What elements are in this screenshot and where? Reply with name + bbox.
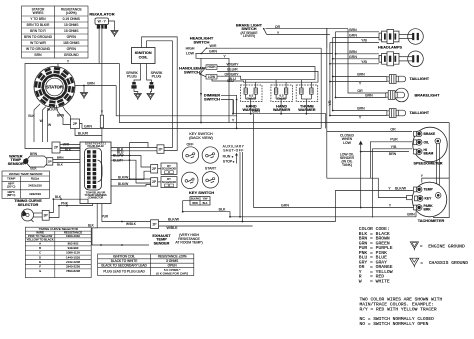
- svg-text:KEY: KEY: [425, 197, 433, 201]
- svg-text:IGNITION COIL: IGNITION COIL: [113, 255, 136, 259]
- wire W/GRY: [217, 67, 315, 80]
- svg-text:SWITCH: SWITCH: [194, 39, 210, 44]
- svg-text:STOP: STOP: [223, 160, 233, 164]
- svg-text:(88°C): (88°C): [7, 193, 15, 197]
- svg-text:TEMP: TEMP: [424, 188, 434, 192]
- svg-text:PUR: PUR: [390, 138, 398, 142]
- svg-text:COIL: COIL: [139, 55, 149, 59]
- svg-text:CONNECTOR: CONNECTOR: [88, 197, 104, 200]
- wire sender ground branch: [92, 228, 149, 245]
- svg-text:SWITCH: SWITCH: [184, 69, 200, 74]
- wire OR/GRY: [217, 76, 241, 80]
- svg-text:BRN TO GROUND: BRN TO GROUND: [24, 35, 53, 39]
- svg-text:BRN: BRN: [57, 156, 63, 160]
- svg-text:Y/B: Y/B: [361, 39, 367, 43]
- headlamp 2: [379, 51, 423, 67]
- svg-text:Y/B: Y/B: [391, 145, 397, 149]
- wire Y brake: [267, 34, 330, 36]
- wire stator BLK: [34, 104, 40, 142]
- svg-text:15 OHMS: 15 OHMS: [64, 23, 79, 27]
- tach light: [435, 193, 441, 199]
- wire dimmer 2: [221, 100, 233, 114]
- svg-text:0.19 OHMS: 0.19 OHMS: [63, 17, 81, 21]
- svg-text:B: B: [39, 246, 41, 250]
- svg-text:BRN: BRN: [357, 107, 365, 111]
- svg-text:BLK/W: BLK/W: [395, 187, 407, 191]
- wire brakelight BRN: [336, 97, 386, 99]
- svg-text:OR: OR: [357, 89, 363, 93]
- svg-text:3 OHMS: 3 OHMS: [166, 259, 178, 263]
- svg-text:W/GRY: W/GRY: [227, 63, 240, 67]
- svg-text:BRN: BRN: [407, 213, 415, 217]
- svg-text:BLU/R: BLU/R: [113, 158, 123, 162]
- svg-text:BLK: BLK: [57, 163, 63, 167]
- wire headlamp1 Y/B: [330, 42, 379, 44]
- wire ignition coil feed 1: [142, 37, 178, 151]
- svg-text:WATER TEMP SENSOR: WATER TEMP SENSOR: [9, 172, 43, 176]
- svg-text:C: C: [39, 251, 41, 255]
- svg-text:= ENGINE GROUND: = ENGINE GROUND: [420, 244, 465, 250]
- svg-text:SOLENOID: SOLENOID: [162, 180, 176, 184]
- svg-text:862-902: 862-902: [68, 242, 79, 246]
- svg-text:2P: 2P: [48, 160, 52, 164]
- svg-text:W/BLK: W/BLK: [166, 226, 178, 230]
- key switch circle OFF: [182, 147, 198, 163]
- wire PUR to speedometer: [370, 142, 412, 178]
- svg-text:HIGH: HIGH: [208, 65, 217, 69]
- wire dimmer 1: [221, 95, 237, 128]
- svg-text:BLACK TO SECONDARY LEAD: BLACK TO SECONDARY LEAD: [101, 264, 147, 268]
- engine ground legend: [410, 242, 418, 249]
- svg-text:GRN: GRN: [252, 110, 260, 114]
- wire headlamp1 GRN: [333, 37, 379, 39]
- svg-text:LEVER): LEVER): [243, 34, 255, 38]
- svg-text:BLU: BLU: [227, 79, 234, 83]
- wire 2P top to connector: [111, 147, 157, 149]
- wire BLK from connector: [92, 203, 97, 227]
- wire stator left frame (BLK): [25, 64, 80, 149]
- engine ground (spark plug 1): [134, 94, 141, 99]
- hand warmer 2: [271, 85, 293, 102]
- wire headlamp1 BRN: [336, 31, 380, 33]
- wire key feed down: [200, 58, 202, 122]
- svg-text:OR: OR: [275, 25, 281, 29]
- svg-text:OFF: OFF: [186, 142, 194, 146]
- key switch circle START: [202, 172, 218, 188]
- stator resistance table: [22, 6, 89, 58]
- svg-text:W TO GROUND: W TO GROUND: [26, 47, 51, 51]
- wire Y down to tach: [327, 178, 407, 197]
- svg-text:949-993: 949-993: [68, 246, 79, 250]
- wire headlamp2 Y/B: [330, 63, 379, 65]
- wire tach mid + inline connector: [407, 195, 415, 199]
- svg-text:2432±250: 2432±250: [28, 184, 42, 188]
- fuse: [100, 115, 103, 128]
- svg-text:PLUG: PLUG: [152, 75, 162, 79]
- svg-text:GRN: GRN: [349, 34, 357, 38]
- headlight switch lever: [202, 48, 207, 54]
- svg-text:OHMS: OHMS: [277, 96, 286, 100]
- timing curve selector table: [25, 227, 91, 277]
- svg-text:TANK): TANK): [342, 163, 352, 167]
- warmer switch levers: [200, 67, 206, 74]
- wire PUR from connector: [102, 203, 151, 221]
- key switch circle 3: [182, 172, 198, 188]
- connector 2P (solenoid 2): [151, 178, 158, 187]
- wire PNK junction line: [49, 203, 92, 217]
- svg-text:BLK/W: BLK/W: [118, 175, 129, 179]
- wire OR to speedometer: [327, 131, 412, 133]
- wire Y headlight common: [196, 54, 229, 123]
- svg-text:BRK: BRK: [424, 207, 432, 211]
- brake switch lever: [264, 29, 267, 35]
- svg-text:OPEN: OPEN: [67, 35, 77, 39]
- svg-text:WARMER: WARMER: [273, 108, 291, 112]
- wire water 2P out: [53, 159, 80, 161]
- speedometer: [413, 127, 448, 162]
- engine ground (spark plug 2): [147, 94, 154, 99]
- svg-text:BLK/W: BLK/W: [191, 198, 199, 201]
- exhaust temp sender 2P: [151, 220, 159, 229]
- tach bulb PARK BRK: [414, 205, 423, 211]
- svg-text:BEAM: BEAM: [424, 152, 434, 156]
- wire regulator to ground: [109, 21, 115, 31]
- svg-text:1086-1126: 1086-1126: [66, 251, 80, 255]
- wire BLK junction line: [49, 199, 88, 212]
- svg-text:TAILLIGHT: TAILLIGHT: [410, 77, 430, 81]
- wire W/BLK long: [159, 225, 253, 227]
- svg-text:15 OHMS: 15 OHMS: [64, 29, 79, 33]
- headlamp 1: [379, 29, 423, 45]
- tachometer: [412, 182, 447, 217]
- svg-text:7890-8238: 7890-8238: [66, 269, 80, 273]
- svg-text:BRN: BRN: [87, 81, 95, 85]
- wire stator W: [43, 107, 47, 143]
- wire taillight1 Y: [330, 81, 387, 83]
- wire BRN to speedometer: [361, 151, 409, 153]
- svg-text:(±20%): (±20%): [66, 11, 77, 15]
- connector 2P (top): [157, 145, 164, 154]
- svg-text:GRN: GRN: [84, 124, 92, 128]
- wire stator W/R: [48, 107, 52, 142]
- main harness connector: [80, 142, 111, 204]
- RT solenoid 1: [161, 163, 177, 174]
- stator: [34, 67, 75, 108]
- svg-text:BRN: BRN: [389, 152, 397, 156]
- svg-text:SOLENOID: SOLENOID: [162, 167, 176, 171]
- wire BLU: [212, 79, 244, 82]
- svg-text:BLK/W: BLK/W: [168, 218, 180, 222]
- svg-text:BRN: BRN: [349, 50, 357, 54]
- svg-text:GROUND: GROUND: [64, 53, 79, 57]
- wire OR brake: [266, 28, 349, 30]
- wire aux drop 2: [241, 152, 243, 222]
- svg-text:OR/GRY: OR/GRY: [225, 72, 240, 76]
- svg-text:(20°C): (20°C): [7, 185, 15, 189]
- svg-text:NO = SWITCH NORMALLY OPEN: NO = SWITCH NORMALLY OPEN: [360, 321, 429, 327]
- hand warmer 1: [241, 85, 263, 102]
- wire GRN long to tach: [254, 114, 415, 208]
- wire stator BRN to 2P: [56, 105, 71, 125]
- speedo bulb BRAKE: [414, 131, 423, 137]
- taillight 1: [387, 75, 406, 84]
- wire OR down to brakelight: [348, 29, 386, 93]
- svg-text:BLK: BLK: [219, 208, 226, 212]
- wire BLK/W long: [159, 191, 414, 222]
- wire speedo light down: [436, 144, 438, 192]
- svg-text:SELECTOR: SELECTOR: [18, 203, 39, 207]
- wire stator BLK/R to 2P: [61, 103, 71, 122]
- svg-text:STATOR: STATOR: [46, 84, 64, 89]
- svg-text:BLU/W: BLU/W: [113, 154, 124, 158]
- svg-text:(BACK VIEW): (BACK VIEW): [189, 136, 213, 140]
- svg-text:BRN: BRN: [357, 73, 365, 77]
- svg-text:W TO W/R: W TO W/R: [30, 41, 46, 45]
- wire water sensor BRN: [28, 156, 47, 159]
- svg-text:W = WHITE: W = WHITE: [359, 279, 390, 285]
- svg-text:BRN: BRN: [192, 202, 198, 205]
- wire stator Y top: [58, 64, 119, 68]
- connector 3P (timing): [42, 210, 49, 220]
- svg-text:BLACK TO WHITE: BLACK TO WHITE: [111, 259, 138, 263]
- svg-text:BLU/R: BLU/R: [227, 68, 238, 72]
- wire BLK/W pair to solenoids: [111, 171, 151, 179]
- chassis ground legend: [410, 258, 419, 266]
- svg-text:D: D: [39, 255, 41, 259]
- svg-text:LOW: LOW: [208, 75, 215, 79]
- svg-text:SPEEDOMETER: SPEEDOMETER: [413, 162, 442, 166]
- wire fuse to connector: [101, 128, 103, 142]
- speedo bulb OIL: [414, 139, 423, 145]
- svg-text:W · Y: W · Y: [98, 20, 107, 24]
- tach bulb KEY: [415, 196, 424, 202]
- svg-text:TACHOMETER: TACHOMETER: [418, 219, 445, 223]
- svg-text:Y/W: Y/W: [203, 198, 208, 201]
- svg-text:OR: OR: [390, 127, 396, 131]
- wire bus L1: [116, 86, 236, 116]
- svg-text:HEADLAMPS: HEADLAMPS: [378, 45, 403, 49]
- svg-text:BRAKELIGHT: BRAKELIGHT: [415, 94, 441, 98]
- svg-text:PLUG LEAD TO PLUG LEAD: PLUG LEAD TO PLUG LEAD: [103, 270, 145, 274]
- wire W/R high beam: [208, 47, 321, 49]
- wire taillight2 BRN: [333, 110, 387, 112]
- ignition coil: [132, 48, 156, 64]
- svg-text:2P: 2P: [73, 122, 78, 126]
- svg-text:WIRES: WIRES: [33, 11, 45, 15]
- svg-text:SHUT-OFF: SHUT-OFF: [223, 148, 243, 152]
- svg-text:REGULATOR: REGULATOR: [89, 12, 114, 17]
- svg-text:BLK: BLK: [28, 114, 35, 118]
- svg-text:BRN TO R: BRN TO R: [30, 29, 46, 33]
- svg-text:OPEN: OPEN: [67, 47, 77, 51]
- svg-text:OIL: OIL: [424, 140, 430, 144]
- svg-text:START: START: [205, 166, 217, 170]
- wire BRN long to tach: [230, 212, 416, 217]
- wire GRN warmers bus: [234, 100, 326, 129]
- svg-text:WARMER: WARMER: [298, 108, 316, 112]
- wire key switch BLK: [183, 201, 230, 217]
- svg-text:TAILLIGHT: TAILLIGHT: [410, 111, 430, 115]
- svg-text:1440-1526: 1440-1526: [66, 255, 80, 259]
- svg-text:1932±36: 1932±36: [29, 192, 41, 196]
- svg-text:BLK/W: BLK/W: [118, 182, 129, 186]
- wire taillight2 Y: [330, 115, 387, 117]
- svg-text:2640-3236: 2640-3236: [66, 265, 80, 269]
- svg-text:F: F: [39, 265, 41, 269]
- brakelight: [395, 88, 409, 102]
- svg-text:GRN: GRN: [209, 50, 217, 54]
- svg-text:A: A: [39, 242, 41, 246]
- wire Y/B to speedometer: [372, 149, 412, 218]
- wire warmer feed a: [241, 79, 315, 81]
- svg-text:BRN: BRN: [35, 53, 43, 57]
- svg-text:PNK: PNK: [61, 201, 69, 205]
- wire headlamp2 GRN: [333, 58, 379, 60]
- svg-text:BRAKE: BRAKE: [424, 132, 437, 136]
- svg-text:W/BLK: W/BLK: [126, 222, 137, 226]
- RT solenoid 2: [161, 177, 177, 188]
- svg-text:LOW: LOW: [186, 52, 195, 56]
- svg-text:= CHASSIS GROUND: = CHASSIS GROUND: [420, 260, 468, 266]
- thumb warmer: [296, 85, 318, 102]
- water temp sensor table: [2, 171, 50, 198]
- svg-text:BRN: BRN: [365, 94, 373, 98]
- svg-text:PLUG: PLUG: [127, 75, 137, 79]
- svg-text:RUN: RUN: [223, 155, 231, 159]
- speedo light: [435, 138, 441, 144]
- svg-text:BLK: BLK: [55, 195, 62, 199]
- svg-text:HIGH: HIGH: [186, 47, 195, 51]
- svg-text:BRN: BRN: [349, 28, 357, 32]
- wire stator BRN to ground: [75, 85, 116, 87]
- engine ground (stator BRN): [83, 86, 85, 93]
- svg-text:2132-2208: 2132-2208: [66, 260, 80, 264]
- svg-text:W/R: W/R: [210, 44, 217, 48]
- wire bus Y long: [119, 64, 449, 123]
- svg-text:BLK: BLK: [203, 202, 208, 205]
- speedo bulb HI BEAM: [414, 149, 423, 155]
- wire aux drop 1: [239, 152, 241, 217]
- svg-text:R/Y = RED WITH YELLOW TRACER: R/Y = RED WITH YELLOW TRACER: [360, 306, 437, 312]
- svg-text:185 OHMS: 185 OHMS: [63, 41, 80, 45]
- svg-text:SENDER: SENDER: [154, 241, 170, 245]
- svg-text:BRN: BRN: [30, 152, 38, 156]
- svg-text:BLK/R: BLK/R: [78, 131, 89, 135]
- svg-text:BLK/R: BLK/R: [47, 108, 58, 112]
- svg-text:RESISTANCE ±20%: RESISTANCE ±20%: [158, 255, 187, 259]
- key switch circle ON: [202, 147, 218, 163]
- wire BLU/R: [217, 71, 318, 82]
- svg-text:SENSOR: SENSOR: [8, 162, 24, 166]
- svg-text:TEMP: TEMP: [7, 177, 15, 181]
- connector 2P (water sensor): [47, 158, 53, 165]
- wire water sensor BLK: [27, 164, 47, 168]
- svg-text:GRN: GRN: [349, 55, 357, 59]
- svg-text:BRN TO BLK/R: BRN TO BLK/R: [27, 23, 50, 27]
- svg-text:LOW: LOW: [343, 141, 352, 145]
- svg-text:PO-231 ASA 03: PO-231 ASA 03: [88, 145, 105, 148]
- engine ground (regulator): [111, 31, 118, 36]
- svg-text:SWITCH: SWITCH: [204, 97, 220, 102]
- wire regulator Y / fuse feed: [101, 29, 103, 116]
- wire warmer feed b: [244, 81, 319, 83]
- wire ignition coil feed 2: [147, 41, 173, 148]
- connector 2P (solenoid 1): [151, 165, 158, 174]
- tach bulb TEMP: [414, 187, 423, 193]
- wire Y tach bracket: [448, 123, 450, 179]
- taillight 2: [387, 109, 406, 118]
- wire headlamp2 BRN: [336, 53, 380, 55]
- svg-text:R(Ω)±: R(Ω)±: [31, 177, 40, 181]
- wire solenoid branches: [130, 143, 151, 180]
- wire GRN from 2P: [80, 124, 322, 129]
- svg-text:E: E: [39, 260, 41, 264]
- svg-text:BRN: BRN: [57, 114, 65, 118]
- svg-text:Y TO BRN: Y TO BRN: [30, 17, 46, 21]
- svg-text:Y/B: Y/B: [361, 60, 367, 64]
- water temp sensor 2P (upper): [52, 142, 60, 153]
- svg-text:BLK: BLK: [65, 148, 72, 152]
- svg-text:OHMS: OHMS: [247, 96, 256, 100]
- svg-text:BLK: BLK: [30, 167, 37, 171]
- ignition coil table: [98, 254, 194, 276]
- connector 2P (stator harness): [71, 119, 80, 129]
- wire regulator W: [98, 29, 100, 64]
- svg-text:(0 K OHMS FOR CAPS: (0 K OHMS FOR CAPS: [156, 271, 188, 275]
- wire taillight1 BRN: [333, 76, 387, 78]
- wire GRN low beam: [196, 53, 333, 55]
- svg-text:GRN: GRN: [281, 204, 289, 208]
- wire BLK/R below 2P: [75, 129, 102, 136]
- svg-text:AT ROOM TEMP): AT ROOM TEMP): [175, 241, 202, 245]
- svg-text:PUR: PUR: [102, 215, 109, 219]
- svg-text:KEY SWITCH: KEY SWITCH: [189, 190, 214, 195]
